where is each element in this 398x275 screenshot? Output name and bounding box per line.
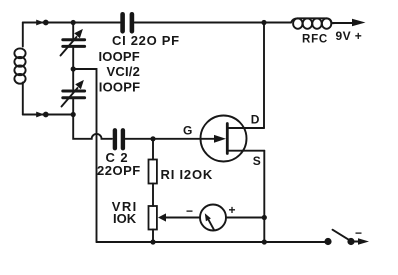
node drain rail junction — [261, 20, 266, 25]
plug connector bottom — [36, 112, 48, 118]
node VC1 top junction — [71, 20, 76, 25]
svg-text:CI 22O PF: CI 22O PF — [112, 33, 180, 48]
node VC mid tap junction — [71, 66, 76, 71]
svg-text:D: D — [251, 112, 260, 126]
wire drain to top rail — [263, 23, 265, 129]
node meter source junction — [262, 215, 267, 220]
svg-text:IOOPF: IOOPF — [99, 49, 140, 64]
svg-text:IOK: IOK — [113, 211, 137, 226]
switch S1 — [324, 230, 354, 245]
resistor R1 — [149, 139, 157, 206]
wire between VC1 and VC2 — [72, 48, 74, 89]
svg-text:−: − — [355, 226, 362, 240]
svg-text:IOOPF: IOOPF — [99, 79, 140, 94]
svg-text:S: S — [253, 154, 261, 168]
svg-text:+: + — [229, 203, 236, 217]
variable capacitor VC1 upper section — [61, 29, 85, 56]
svg-text:9V +: 9V + — [336, 29, 363, 43]
wire wiper to meter — [165, 217, 200, 219]
svg-text:−: − — [186, 204, 193, 218]
wire C2 to gate junction — [125, 138, 153, 140]
wire 9V supply arrow — [333, 19, 366, 27]
wire bottom rail — [97, 241, 329, 243]
wire battery minus arrow — [354, 238, 369, 244]
wire coil bottom to VC2 bottom — [23, 114, 73, 116]
meter M1 — [200, 205, 226, 231]
variable capacitor VC2 lower section — [62, 80, 85, 107]
node source bottom rail junction — [262, 239, 267, 244]
svg-text:RFC: RFC — [302, 34, 328, 46]
capacitor C2 — [115, 130, 123, 148]
node VC2 bottom junction — [71, 112, 76, 117]
wire meter to source column — [226, 217, 264, 219]
wire source down to bottom rail — [263, 151, 265, 242]
wire VC2 to bottom junction — [72, 99, 74, 115]
wire top rail right (C1 to RFC) — [135, 22, 291, 24]
inductor RFC — [291, 18, 334, 29]
capacitor C1 — [123, 14, 132, 31]
wire tank bottom to C2 with hop over ground column — [73, 115, 112, 139]
svg-text:VCI/2: VCI/2 — [107, 64, 141, 79]
node R1 bottom rail junction — [150, 239, 155, 244]
svg-text:22OPF: 22OPF — [97, 163, 141, 178]
wire gate lead with arrow — [153, 135, 226, 143]
plug connector top — [36, 20, 48, 26]
node gate junction — [150, 136, 155, 141]
wire top rail left (tank top to C1) — [23, 22, 120, 24]
coil L1 plug-in — [14, 23, 25, 115]
wire VC column top — [72, 23, 74, 39]
wire mid tap to ground column — [73, 69, 96, 242]
potentiometer VR1 — [149, 206, 167, 242]
svg-text:G: G — [183, 124, 192, 138]
svg-text:RI I2OK: RI I2OK — [161, 167, 214, 182]
transistor TR1 JFET — [201, 116, 265, 162]
